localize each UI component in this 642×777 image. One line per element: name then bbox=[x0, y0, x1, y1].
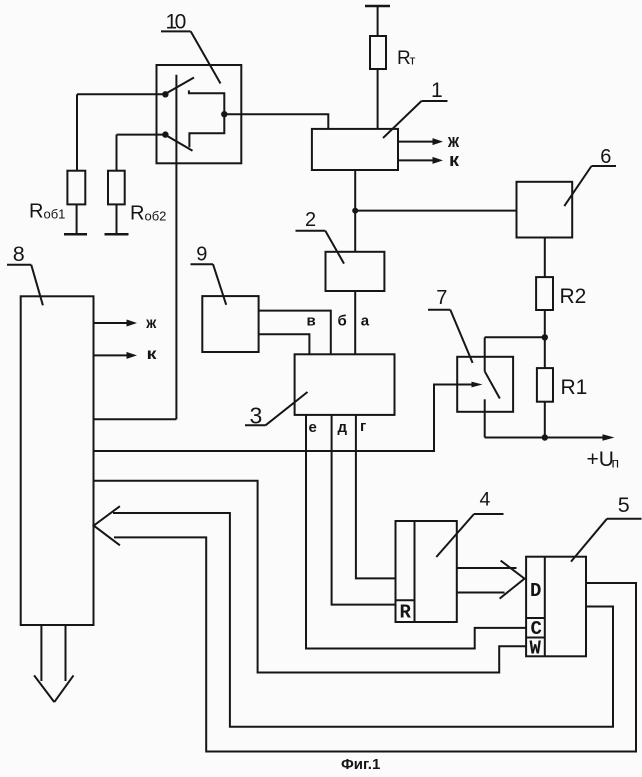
svg-text:6: 6 bbox=[600, 146, 611, 168]
svg-text:е: е bbox=[309, 419, 317, 436]
svg-text:к: к bbox=[449, 150, 460, 170]
svg-text:R1: R1 bbox=[561, 376, 588, 399]
svg-text:R: R bbox=[130, 203, 144, 225]
svg-text:ж: ж bbox=[145, 315, 156, 332]
svg-text:2: 2 bbox=[305, 209, 316, 231]
svg-text:R: R bbox=[400, 602, 412, 624]
svg-text:R2: R2 bbox=[560, 285, 587, 308]
svg-text:об1: об1 bbox=[44, 207, 66, 222]
svg-text:+U: +U bbox=[587, 448, 614, 471]
svg-text:R: R bbox=[29, 201, 43, 223]
svg-text:б: б bbox=[338, 313, 347, 330]
svg-text:к: к bbox=[147, 346, 158, 363]
svg-text:п: п bbox=[612, 455, 620, 471]
svg-text:7: 7 bbox=[436, 287, 447, 309]
svg-text:4: 4 bbox=[480, 489, 491, 511]
svg-text:г: г bbox=[360, 418, 366, 435]
svg-text:W: W bbox=[530, 638, 542, 660]
svg-text:в: в bbox=[307, 313, 316, 330]
svg-text:д: д bbox=[338, 419, 348, 436]
svg-text:3: 3 bbox=[250, 403, 263, 429]
svg-text:10: 10 bbox=[166, 11, 186, 34]
svg-text:а: а bbox=[361, 313, 370, 330]
svg-text:8: 8 bbox=[13, 242, 25, 266]
svg-text:об2: об2 bbox=[145, 209, 167, 224]
svg-text:9: 9 bbox=[196, 244, 207, 266]
svg-text:т: т bbox=[410, 53, 416, 68]
svg-text:D: D bbox=[530, 580, 541, 602]
svg-text:ж: ж bbox=[447, 131, 459, 151]
svg-text:Фиг.1: Фиг.1 bbox=[341, 756, 380, 773]
svg-text:1: 1 bbox=[431, 79, 443, 102]
svg-text:5: 5 bbox=[618, 493, 630, 517]
